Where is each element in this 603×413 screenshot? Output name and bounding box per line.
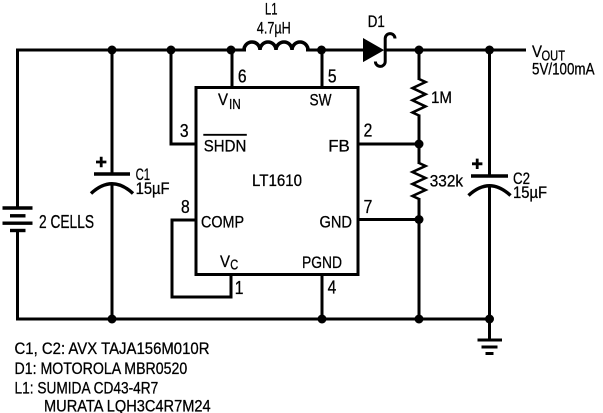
pin number 1 [235, 278, 244, 298]
svg-text:1: 1 [235, 278, 244, 298]
wire GND pin 7 [358, 218, 419, 221]
svg-text:7: 7 [364, 197, 373, 217]
label C1 value 15uF [136, 179, 170, 198]
svg-text:5: 5 [328, 66, 337, 86]
capacitor C1 plus sign [96, 157, 106, 167]
svg-text:C: C [230, 257, 238, 274]
note line 1 C1 C2 part [15, 339, 210, 358]
pin number 7 [364, 197, 373, 217]
wire 332k top [418, 143, 421, 164]
svg-text:D1: MOTOROLA MBR0520: D1: MOTOROLA MBR0520 [15, 359, 188, 378]
wire VIN pin 6 [231, 49, 234, 90]
svg-text:V: V [220, 252, 231, 271]
label 332k [430, 172, 464, 191]
wire C2 top branch [488, 49, 491, 175]
node FB junction [415, 140, 424, 149]
pin label PGND [302, 253, 342, 272]
capacitor C2 plus sign [472, 159, 482, 169]
note line 3 L1 part [15, 379, 159, 398]
wire left vertical lower (battery bottom) [16, 231, 19, 321]
wire SHDN branch (pin 3) [170, 49, 197, 145]
pin label FB [328, 137, 350, 156]
svg-text:V: V [218, 90, 229, 109]
svg-text:5V/100mA: 5V/100mA [532, 60, 595, 79]
svg-text:2 CELLS: 2 CELLS [39, 212, 94, 232]
svg-text:6: 6 [238, 66, 247, 86]
wire GND node to bottom rail [418, 220, 421, 320]
wire PGND pin 4 [321, 273, 324, 319]
svg-text:COMP: COMP [201, 213, 244, 232]
label C2 value 15uF [513, 183, 547, 202]
resistor R2 332k [413, 163, 426, 199]
wire C2 bottom branch [488, 186, 491, 321]
wire top rail left segment [16, 49, 246, 52]
svg-text:15µF: 15µF [513, 183, 547, 202]
svg-text:1M: 1M [431, 88, 452, 107]
pin label SHDN with overline [203, 135, 247, 156]
svg-text:2: 2 [364, 121, 373, 141]
svg-text:IN: IN [229, 96, 241, 113]
pin number 3 [180, 121, 189, 141]
wire FB pin 2 [358, 143, 419, 146]
label LT1610 [252, 171, 302, 190]
diode D1 schottky [364, 34, 396, 67]
svg-text:4: 4 [328, 278, 337, 298]
inductor L1 coil [244, 42, 308, 50]
svg-text:3: 3 [180, 121, 189, 141]
pin number 8 [181, 197, 190, 217]
resistor R1 1M [413, 79, 426, 115]
capacitor C2 [469, 176, 511, 196]
pin number 2 [364, 121, 373, 141]
note line 2 D1 part [15, 359, 188, 378]
pin label COMP [201, 213, 244, 232]
ground symbol [478, 319, 503, 354]
svg-text:FB: FB [328, 137, 350, 156]
svg-text:GND: GND [320, 213, 353, 232]
svg-text:D1: D1 [368, 12, 385, 31]
wire diode cathode to VOUT [385, 49, 527, 52]
wire 1M bottom to FB node [418, 115, 421, 145]
op-amp box IC U1 LT1610 [196, 88, 358, 275]
battery 2 CELLS [3, 208, 33, 231]
wire COMP pin 8 to VC pin 1 loop [172, 220, 231, 297]
wire SW pin 5 [321, 49, 324, 90]
node GND junction [415, 215, 424, 224]
label VOUT [532, 42, 565, 65]
svg-text:15µF: 15µF [136, 179, 170, 198]
pin label VIN [218, 90, 241, 113]
wire C1 top branch [111, 49, 114, 173]
svg-text:L1: SUMIDA CD43-4R7: L1: SUMIDA CD43-4R7 [15, 379, 159, 398]
svg-text:PGND: PGND [302, 253, 342, 272]
label D1 [368, 12, 385, 31]
pin label SW [310, 91, 332, 110]
svg-text:SHDN: SHDN [204, 137, 247, 156]
node junction dots bottom rail [108, 315, 495, 324]
label 4.7uH [257, 19, 291, 38]
node junction dots top rail [108, 46, 495, 55]
svg-text:LT1610: LT1610 [252, 171, 302, 190]
wire 1M top [418, 49, 421, 81]
capacitor C1 [91, 174, 133, 194]
label L1 [265, 0, 278, 19]
pin number 4 [328, 278, 337, 298]
svg-text:8: 8 [181, 197, 190, 217]
pin label VC [220, 252, 238, 274]
wire inductor to diode anode [306, 49, 364, 52]
label 1M [431, 88, 452, 107]
svg-text:332k: 332k [430, 172, 464, 191]
svg-text:C1, C2: AVX TAJA156M010R: C1, C2: AVX TAJA156M010R [15, 339, 210, 358]
label C2 [513, 169, 530, 188]
wire bottom ground rail [16, 318, 490, 321]
label 5V/100mA [532, 60, 595, 79]
pin number 6 [238, 66, 247, 86]
svg-text:4.7µH: 4.7µH [257, 19, 291, 38]
pin number 5 [328, 66, 337, 86]
svg-text:L1: L1 [265, 0, 278, 19]
note line 4 L1 alt part [44, 397, 211, 413]
wire left vertical upper (battery top) [16, 49, 19, 209]
wire 332k bottom to GND node [418, 198, 421, 220]
svg-text:SW: SW [310, 91, 332, 110]
pin label GND [320, 213, 353, 232]
label C1 [136, 165, 151, 184]
label 2 CELLS [39, 212, 94, 232]
svg-text:MURATA LQH3C4R7M24: MURATA LQH3C4R7M24 [44, 397, 211, 413]
wire C1 bottom branch [111, 184, 114, 321]
